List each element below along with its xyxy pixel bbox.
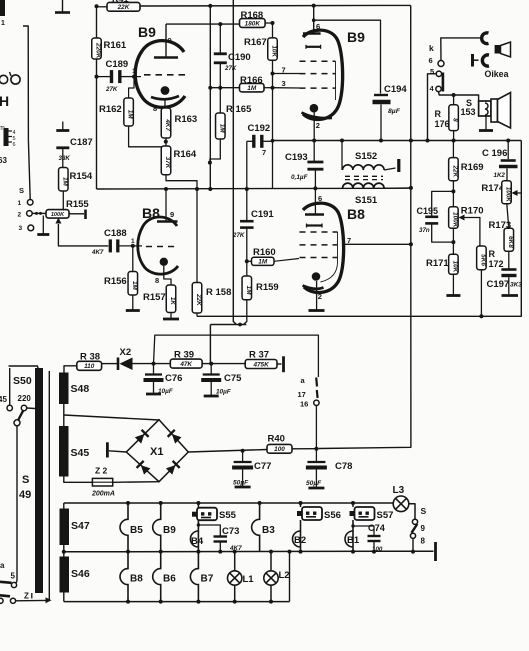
wire grid pin 1 B8 left (119, 238, 142, 248)
svg-text:3: 3 (282, 79, 286, 88)
wire cathode node to X2 junction (154, 335, 319, 377)
svg-text:1M: 1M (61, 177, 68, 187)
svg-text:R40: R40 (268, 434, 285, 445)
svg-text:H: H (0, 93, 9, 109)
wire anode B9L to R168 lead (166, 22, 240, 26)
svg-text:R 158: R 158 (206, 287, 231, 298)
tube B8 left cathode pin 8 (155, 258, 171, 285)
wire grid pin 7 line B9 right (273, 66, 300, 88)
svg-text:L3: L3 (393, 485, 405, 496)
heater B7 (190, 552, 198, 602)
switch S55 (192, 503, 237, 521)
svg-text:1M: 1M (218, 124, 225, 134)
tube B8 right cathode pin 2 (303, 272, 324, 309)
capacitor C74 (351, 523, 385, 553)
transformer core line (48, 371, 50, 601)
wire B+ vertical right x=411 (318, 5, 413, 448)
svg-text:C197: C197 (487, 279, 510, 290)
svg-text:B8: B8 (130, 574, 143, 585)
svg-text:37n: 37n (419, 227, 430, 234)
svg-text:153: 153 (461, 107, 476, 117)
svg-text:B9: B9 (138, 24, 156, 40)
switch S57 (350, 503, 394, 521)
svg-text:S: S (421, 506, 427, 516)
capacitor C189 (97, 59, 135, 93)
switch S56 (297, 503, 341, 521)
tube B8 left anode pin 9 (157, 189, 178, 222)
tube B8 left envelope (138, 217, 178, 274)
mains selector wiper (14, 411, 23, 581)
tube B9 left cathode (151, 86, 179, 113)
svg-text:1M: 1M (245, 286, 252, 296)
svg-text:R164: R164 (174, 149, 197, 160)
wire heater bottom rail (64, 552, 290, 604)
svg-text:C187: C187 (70, 137, 93, 148)
svg-text:B8: B8 (347, 206, 365, 222)
mains selector terminal 245V (0, 368, 12, 411)
transformer core dashes S152/S151 (345, 176, 383, 179)
svg-text:100K: 100K (505, 187, 512, 203)
potentiometer R174 (481, 181, 521, 204)
svg-text:1: 1 (18, 200, 22, 207)
resistor R166 (210, 75, 274, 92)
wire left input to terminal 1 (23, 26, 30, 199)
svg-text:6: 6 (316, 22, 320, 31)
svg-text:4K7: 4K7 (229, 545, 242, 552)
heater B5 (120, 503, 128, 552)
capacitor C190 (214, 24, 251, 113)
svg-text:9: 9 (168, 36, 172, 45)
svg-text:S151: S151 (355, 195, 378, 206)
ground below S153 (485, 116, 487, 131)
capacitor C78 (306, 449, 353, 487)
svg-text:100K: 100K (451, 212, 458, 228)
tube B8 left grid dashes (146, 246, 174, 248)
wire contact 5 to screen bus (428, 74, 437, 141)
svg-text:B4: B4 (191, 536, 204, 547)
svg-text:S152: S152 (355, 151, 377, 162)
svg-text:3: 3 (19, 225, 23, 232)
wire plate bus y=189 (97, 186, 412, 191)
heater B4 (190, 520, 203, 551)
heater B2 (293, 520, 307, 552)
svg-text:5: 5 (430, 67, 434, 76)
capacitor C73 (197, 523, 242, 552)
svg-text:X1: X1 (150, 446, 163, 458)
switch S 9 8 (410, 506, 426, 552)
resistor R168 (240, 10, 275, 27)
capacitor C197 (487, 251, 523, 294)
tube B9 left envelope (135, 41, 185, 108)
svg-text:200mA: 200mA (91, 491, 115, 498)
svg-text:5: 5 (11, 572, 16, 581)
svg-text:7: 7 (347, 236, 351, 245)
bridge X1 left terminal (107, 442, 126, 457)
tube B9 right cathode pin 2 (302, 104, 333, 141)
svg-text:172: 172 (489, 259, 504, 269)
svg-text:100: 100 (372, 546, 383, 553)
wire R155 wiper to C188 (58, 224, 108, 246)
svg-text:100: 100 (274, 446, 285, 453)
svg-text:110: 110 (84, 363, 95, 370)
svg-text:R157: R157 (143, 292, 166, 303)
svg-text:1M: 1M (247, 85, 257, 92)
svg-text:R: R (489, 249, 496, 259)
svg-text:1M: 1M (258, 259, 268, 266)
resistor R167 (244, 23, 278, 76)
svg-text:k: k (429, 43, 434, 53)
svg-text:S47: S47 (71, 520, 90, 532)
svg-text:R154: R154 (70, 171, 93, 182)
wire heater top rail (64, 501, 393, 505)
svg-text:C189: C189 (106, 59, 129, 70)
svg-text:10K: 10K (451, 261, 458, 273)
partial tube heater circles left edge (0, 72, 20, 84)
capacitor C77 (232, 451, 271, 487)
svg-text:27K: 27K (224, 65, 237, 72)
svg-text:Z: Z (24, 592, 29, 601)
wire screen divider x=210 (208, 6, 212, 191)
svg-text:45: 45 (0, 395, 7, 404)
svg-text:R155: R155 (66, 199, 89, 210)
svg-text:R171: R171 (426, 258, 449, 269)
svg-text:S45: S45 (71, 447, 90, 459)
svg-text:220: 220 (18, 394, 32, 403)
wire contact 4 to R176 and S153 (439, 92, 479, 101)
heater B1 (345, 520, 360, 552)
svg-text:R: R (435, 109, 442, 119)
svg-text:R156: R156 (104, 276, 127, 287)
lamp L3 (393, 485, 416, 519)
diode X2 (102, 347, 156, 370)
svg-text:C 196: C 196 (482, 148, 507, 159)
ground below C75 (210, 380, 212, 396)
tube B9 right envelope (303, 30, 343, 119)
resistor R159 (242, 276, 279, 325)
mains plug terminal lower with Z1 chassis arrow (0, 592, 51, 604)
tube B9 right screen bar (306, 45, 321, 49)
svg-text:33K: 33K (59, 155, 71, 162)
svg-text:1M: 1M (127, 110, 134, 120)
resistor R162 (99, 77, 162, 147)
svg-text:C75: C75 (224, 373, 242, 384)
svg-text:0,1µF: 0,1µF (291, 174, 309, 181)
svg-text:1: 1 (1, 20, 5, 27)
ground below C197 (502, 294, 519, 297)
svg-text:2: 2 (18, 212, 22, 219)
resistor R157 (143, 285, 176, 313)
svg-text:50µF: 50µF (306, 480, 322, 487)
headphone jack contact bottom (473, 54, 490, 67)
capacitor C195 (417, 191, 454, 242)
svg-text:S50: S50 (13, 375, 32, 387)
svg-text:22K: 22K (195, 293, 202, 306)
svg-text:8: 8 (452, 118, 459, 122)
svg-text:B2: B2 (294, 535, 306, 546)
svg-text:16: 16 (300, 400, 308, 409)
mains selector terminal 220V (18, 394, 36, 411)
svg-text:1K2: 1K2 (494, 172, 506, 179)
headphone jack contact top (482, 33, 489, 44)
svg-text:R167: R167 (244, 37, 267, 48)
svg-text:R169: R169 (461, 162, 484, 173)
capacitor C76 (144, 364, 183, 395)
resistor R173 (489, 204, 514, 252)
svg-text:7: 7 (262, 148, 266, 157)
svg-text:49: 49 (19, 489, 31, 501)
capacitor C75 (201, 364, 242, 396)
capacitor C188 (91, 228, 127, 256)
svg-text:B3: B3 (262, 525, 275, 536)
svg-text:50µF: 50µF (233, 480, 249, 487)
svg-text:475K: 475K (252, 361, 269, 368)
tube B9 left anode pin 9 (154, 24, 178, 57)
svg-text:R162: R162 (99, 104, 122, 115)
heater B3 (252, 503, 260, 552)
svg-text:8µF: 8µF (388, 108, 401, 115)
svg-text:4K7: 4K7 (164, 118, 171, 131)
tube B8 right envelope (303, 203, 344, 292)
ground below C77 (242, 468, 244, 487)
inductor S151 (343, 183, 412, 206)
capacitor C193 (285, 141, 323, 189)
wire long vertical x=233 to bias node (210, 0, 246, 364)
heater B9 (153, 503, 161, 552)
winding S45 (59, 426, 89, 477)
svg-text:6: 6 (318, 194, 322, 203)
wire left vertical x=96 with top node (95, 4, 99, 189)
bridge rectifier X1 (126, 420, 188, 482)
resistor R154 (59, 168, 93, 211)
svg-text:B6: B6 (163, 574, 176, 585)
svg-text:R159: R159 (256, 282, 279, 293)
svg-text:C78: C78 (335, 461, 352, 472)
terminal strip S with contacts 1 2 3 (18, 186, 34, 232)
ground below R156 (132, 295, 134, 311)
svg-text:S48: S48 (71, 383, 90, 395)
svg-text:Z 2: Z 2 (95, 466, 108, 476)
svg-text:5K6: 5K6 (479, 254, 486, 266)
jack switch contacts 5 4 (430, 67, 445, 93)
speaker icon small (495, 42, 511, 57)
svg-text:C188: C188 (104, 228, 127, 239)
ground below B8 right cathode (309, 309, 325, 312)
svg-text:17: 17 (298, 390, 306, 399)
fuse Z2 (64, 466, 159, 498)
svg-text:1K: 1K (169, 297, 176, 306)
resistor R163 (161, 108, 197, 146)
tube B9 left grid dashes (144, 74, 187, 76)
svg-text:C191: C191 (251, 209, 274, 220)
svg-text:S55: S55 (219, 510, 237, 521)
svg-text:4K7: 4K7 (91, 249, 104, 256)
transformer primary winding S49/S50 (9, 366, 44, 593)
svg-text:6: 6 (13, 142, 16, 148)
partial winding left edge with pins 4 5 6 (0, 125, 16, 148)
svg-text:10K: 10K (271, 45, 278, 57)
svg-text:2: 2 (318, 292, 322, 301)
svg-text:C77: C77 (254, 461, 271, 472)
svg-text:220K: 220K (95, 42, 102, 59)
svg-text:180K: 180K (245, 20, 261, 27)
winding S48 (59, 373, 89, 427)
svg-text:R161: R161 (104, 40, 127, 51)
svg-text:S: S (19, 186, 24, 195)
resistor R39 (154, 350, 214, 369)
svg-text:47K: 47K (179, 361, 192, 368)
capacitor C187 (56, 122, 92, 168)
svg-text:B5: B5 (130, 525, 143, 536)
svg-text:C192: C192 (248, 123, 271, 134)
svg-text:S46: S46 (71, 568, 90, 580)
svg-text:a: a (0, 561, 5, 570)
tube B8 right screen bar (307, 224, 323, 228)
svg-text:B1: B1 (347, 535, 360, 546)
svg-text:9: 9 (170, 210, 174, 219)
capacitor C196 (482, 139, 518, 181)
svg-text:R160: R160 (253, 247, 276, 258)
svg-text:B9: B9 (163, 525, 176, 536)
ground below C76 (153, 380, 155, 394)
capacitor C191 (232, 189, 274, 276)
resistor R160 (245, 247, 299, 266)
wire grid pin 3 line B9 right (271, 79, 300, 188)
tube B8 right grid dashes (300, 232, 338, 282)
svg-text:63: 63 (0, 156, 7, 165)
lamp L2 (264, 552, 290, 602)
wire screen bus y=140 (273, 139, 522, 143)
resistor R37 (211, 350, 283, 373)
wire terminal 2 to R155 (32, 212, 46, 215)
svg-text:B9: B9 (347, 29, 365, 45)
svg-text:9: 9 (421, 524, 426, 533)
resistor R176 (435, 95, 459, 141)
svg-text:Oikea: Oikea (485, 69, 509, 79)
capacitor C192 (247, 123, 273, 189)
svg-text:R163: R163 (175, 114, 198, 125)
svg-text:C194: C194 (384, 84, 407, 95)
svg-text:C193: C193 (285, 152, 308, 163)
svg-text:37K: 37K (164, 157, 171, 169)
svg-text:22K: 22K (117, 4, 130, 11)
wire top supply bus (140, 4, 411, 8)
mains plug terminal upper (0, 426, 17, 588)
winding S46 (60, 557, 90, 602)
resistor R172 (477, 246, 504, 318)
svg-text:R 165: R 165 (226, 104, 252, 115)
svg-text:6K8: 6K8 (507, 236, 514, 248)
svg-text:C74: C74 (368, 523, 386, 533)
svg-text:S: S (22, 474, 29, 486)
svg-text:22K: 22K (451, 164, 458, 177)
wire feedback right edge (197, 141, 521, 317)
resistor R164 (161, 146, 197, 189)
svg-text:176: 176 (435, 119, 450, 129)
chassis terminal right of heater rail (434, 542, 437, 561)
svg-text:8: 8 (155, 276, 159, 285)
svg-text:8: 8 (421, 537, 426, 546)
potentiometer R155 (46, 199, 89, 224)
ground below C78 (315, 468, 317, 488)
tube B9 right anode pin 6 (303, 6, 321, 34)
resistor R165 (210, 104, 252, 163)
lamp L1 (228, 552, 255, 602)
heater B8 (120, 552, 128, 602)
svg-text:B7: B7 (201, 574, 214, 585)
svg-text:3K3: 3K3 (510, 282, 522, 289)
terminal a 17 16 (298, 376, 320, 449)
svg-text:1M: 1M (131, 281, 138, 291)
output transformer S153 with speaker (461, 93, 511, 129)
svg-text:10µF: 10µF (216, 389, 232, 396)
ground below terminal 2 (42, 216, 44, 235)
resistor R156 (104, 246, 138, 295)
node grid pin 1 of B9 left (132, 68, 141, 79)
tube B9 right grid dashes (300, 61, 336, 100)
resistor R171 (426, 242, 458, 274)
svg-text:S57: S57 (377, 510, 394, 521)
wire pin 7 line B8 right (345, 236, 411, 245)
svg-text:S56: S56 (324, 510, 341, 521)
winding S47 (60, 503, 90, 557)
svg-text:C195: C195 (417, 206, 439, 216)
svg-text:1: 1 (131, 238, 135, 245)
svg-text:C190: C190 (228, 52, 251, 63)
svg-text:L1: L1 (243, 574, 255, 585)
svg-text:X2: X2 (120, 347, 132, 358)
potentiometer R170 (449, 191, 484, 246)
inductor S152 (342, 141, 399, 173)
svg-text:L2: L2 (279, 570, 290, 581)
capacitor plate stub top (55, 0, 70, 13)
resistor R161 (92, 38, 127, 59)
svg-text:8: 8 (153, 104, 157, 113)
wire heater middle rail (62, 550, 434, 554)
resistor R158 (192, 189, 231, 316)
capacitor C194 (312, 18, 408, 140)
svg-text:6: 6 (429, 56, 433, 65)
ground below R157 (170, 313, 172, 320)
svg-text:2: 2 (316, 121, 320, 130)
heater B6 (153, 552, 161, 602)
svg-text:100K: 100K (51, 212, 65, 218)
svg-text:27K: 27K (105, 86, 118, 93)
tube B8 right anode pin 6 (305, 188, 324, 214)
wire S48/S45 node to bridge top (64, 415, 159, 420)
resistor R41 (cut at top edge) (97, 0, 141, 11)
partial component top-left corner (0, 0, 5, 27)
wire output terminal k 6 (429, 38, 481, 67)
wire bridge output to R40 (188, 449, 267, 453)
ground below R171 (452, 274, 454, 295)
resistor R169 (449, 141, 484, 194)
resistor R40 (267, 434, 318, 454)
svg-text:C76: C76 (165, 373, 182, 384)
resistor R38 (64, 352, 102, 373)
